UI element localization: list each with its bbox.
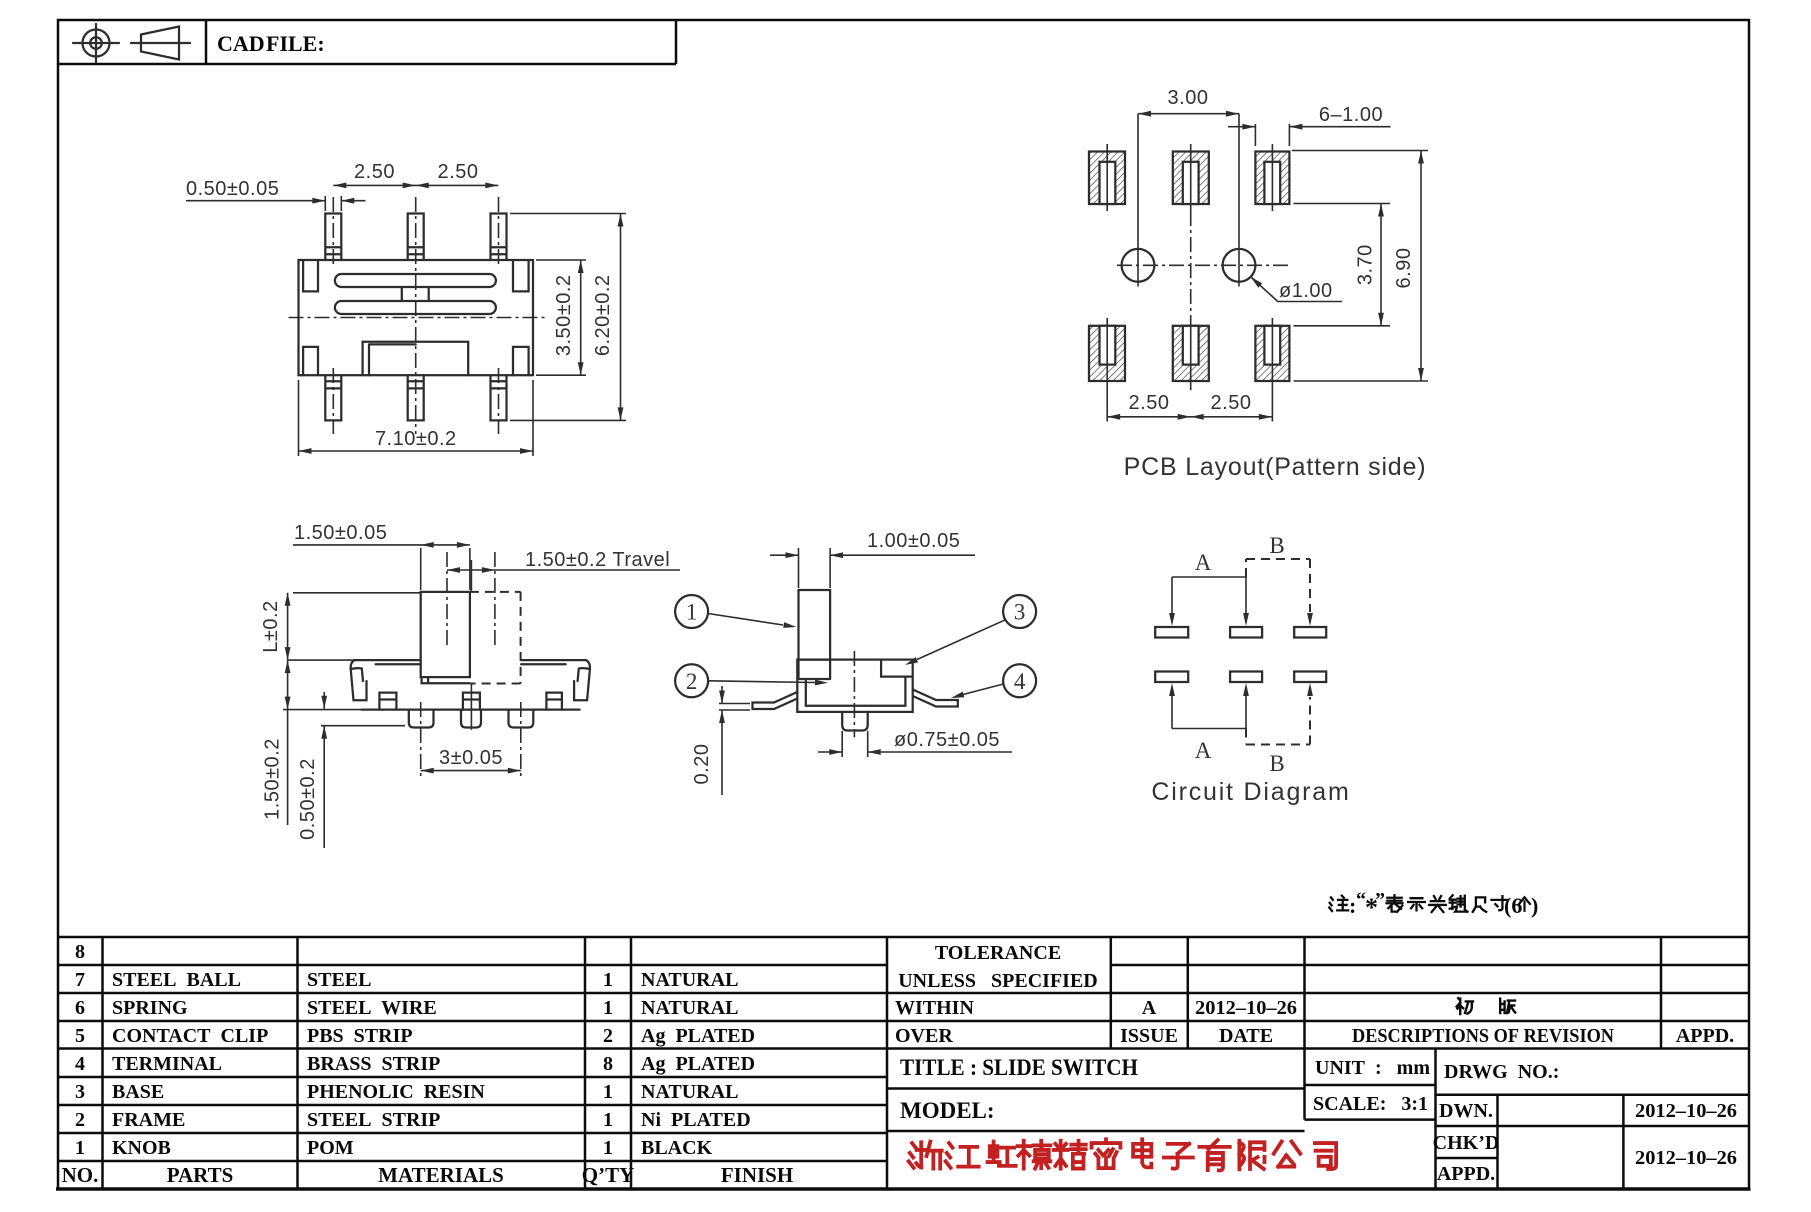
- dim 3.00 hole pitch: [1138, 87, 1239, 117]
- label hole diameter: [1249, 275, 1342, 302]
- section body outline: [797, 660, 912, 712]
- svg-text:STEEL: STEEL: [307, 969, 371, 991]
- note critical dimensions: [1329, 889, 1538, 922]
- svg-text:WITHIN: WITHIN: [895, 997, 974, 1019]
- body right corner tab: [574, 660, 590, 700]
- under tab right: [546, 693, 562, 710]
- svg-text:3.70: 3.70: [1355, 244, 1377, 285]
- svg-text:TOLERANCE: TOLERANCE: [935, 942, 1061, 964]
- terminal pin bottom-middle: [408, 375, 424, 420]
- dim 3.50 body height: [536, 260, 586, 375]
- svg-text:3: 3: [1014, 600, 1026, 625]
- svg-text:1: 1: [603, 997, 613, 1019]
- svg-text:Ag PLATED: Ag PLATED: [641, 1053, 755, 1075]
- contact pad 3 top-right: [1294, 627, 1326, 638]
- svg-text:4: 4: [1014, 669, 1026, 694]
- terminal pin top-left: [325, 214, 341, 261]
- svg-text:2: 2: [75, 1109, 85, 1131]
- svg-text:6.20±0.2: 6.20±0.2: [592, 274, 614, 356]
- contact pad 1 top-left: [1155, 627, 1188, 638]
- svg-text:1.50±0.2 Travel: 1.50±0.2 Travel: [525, 549, 670, 571]
- svg-text:Q’TY: Q’TY: [582, 1163, 635, 1187]
- svg-text:1: 1: [603, 969, 613, 991]
- dim 3 outer feet pitch: [421, 702, 521, 779]
- svg-text:2.50: 2.50: [1129, 392, 1170, 414]
- svg-text:CAD: CAD: [217, 31, 265, 56]
- svg-text:BRASS STRIP: BRASS STRIP: [307, 1053, 440, 1075]
- revision entry chinese: [1457, 998, 1516, 1014]
- knob stem: [799, 590, 831, 660]
- parts table grid: [58, 937, 1749, 1189]
- svg-text:2012–10–26: 2012–10–26: [1195, 997, 1297, 1019]
- svg-text:B: B: [1269, 533, 1284, 558]
- dim 6.90 overall: [1292, 151, 1428, 382]
- svg-text:3: 3: [75, 1081, 85, 1103]
- svg-text:8: 8: [603, 1053, 613, 1075]
- svg-text:A: A: [1195, 738, 1212, 763]
- hole circle right: [1223, 114, 1256, 287]
- wire B bottom dashed: [1246, 683, 1313, 776]
- svg-text:1: 1: [603, 1109, 613, 1131]
- vertical centerline middle: [415, 197, 417, 434]
- svg-text:2012–10–26: 2012–10–26: [1635, 1100, 1737, 1122]
- center line through middle foot: [470, 560, 472, 730]
- first-angle projection symbol cone: [131, 27, 190, 60]
- dim 0.50 standoff: [297, 692, 405, 848]
- hole circle left: [1122, 114, 1155, 287]
- svg-text:FILE:: FILE:: [266, 31, 325, 56]
- svg-text:B: B: [1269, 751, 1284, 776]
- svg-text:ISSUE: ISSUE: [1120, 1025, 1178, 1047]
- svg-text:6.90: 6.90: [1393, 248, 1415, 289]
- svg-text:3.00: 3.00: [1168, 87, 1209, 109]
- svg-text:1.50±0.2: 1.50±0.2: [262, 738, 284, 820]
- pad 6 bottom-right: [1255, 318, 1289, 422]
- smt foot middle: [461, 710, 481, 728]
- dim 2.50 pad pitch left: [1107, 392, 1272, 420]
- hole centerline horizontal: [1117, 264, 1292, 266]
- terminal pin bottom-right: [491, 375, 507, 420]
- knob travel centerline left: [446, 552, 448, 648]
- svg-text:PHENOLIC RESIN: PHENOLIC RESIN: [307, 1081, 485, 1103]
- frame corner notch bottom-left: [303, 347, 318, 375]
- svg-text:MODEL:: MODEL:: [900, 1098, 995, 1123]
- frame corner notch top-right: [513, 260, 529, 291]
- pad 2 top-middle: [1173, 144, 1209, 211]
- svg-text:DESCRIPTIONS OF REVISION: DESCRIPTIONS OF REVISION: [1352, 1025, 1615, 1047]
- dim 2.50 pitch right: [416, 161, 499, 188]
- svg-text:(6: (6: [1504, 893, 1522, 918]
- svg-text:KNOB: KNOB: [112, 1137, 171, 1159]
- svg-text:8: 8: [75, 941, 85, 963]
- svg-text:1.50±0.05: 1.50±0.05: [294, 522, 387, 544]
- dim 2.50 pad pitch right: [1191, 392, 1272, 420]
- svg-text:3±0.05: 3±0.05: [439, 747, 503, 769]
- svg-text:STEEL WIRE: STEEL WIRE: [307, 997, 437, 1019]
- svg-text:1: 1: [603, 1137, 613, 1159]
- svg-text:NATURAL: NATURAL: [641, 1081, 738, 1103]
- contact pad 2 top-middle: [1230, 627, 1262, 638]
- knob front: [421, 592, 470, 677]
- stem root line: [797, 660, 830, 679]
- first-angle projection symbol circle: [73, 24, 119, 62]
- svg-text:STEEL STRIP: STEEL STRIP: [307, 1109, 440, 1131]
- title block grid right: [887, 937, 1749, 1189]
- dim 0.20 lead thickness: [691, 686, 750, 795]
- contact pad 6 bottom-right: [1294, 672, 1326, 683]
- svg-text:0.20: 0.20: [691, 744, 713, 785]
- svg-text:Ag PLATED: Ag PLATED: [641, 1025, 755, 1047]
- smt foot right: [509, 710, 534, 728]
- svg-text:0.50±0.2: 0.50±0.2: [297, 758, 319, 840]
- balloon 4 terminal: [950, 664, 1036, 700]
- body top plate: [355, 660, 586, 664]
- wire A top: [1169, 550, 1249, 626]
- svg-text:1: 1: [603, 1081, 613, 1103]
- svg-text:FRAME: FRAME: [112, 1109, 185, 1131]
- dim 1.50 knob width: [293, 522, 470, 590]
- svg-text:PARTS: PARTS: [167, 1163, 234, 1187]
- svg-text:UNIT : mm: UNIT : mm: [1315, 1057, 1430, 1079]
- svg-text:SPRING: SPRING: [112, 997, 188, 1019]
- svg-text:NATURAL: NATURAL: [641, 997, 738, 1019]
- svg-text:1: 1: [686, 600, 698, 625]
- svg-text:Ni PLATED: Ni PLATED: [641, 1109, 751, 1131]
- svg-text:BLACK: BLACK: [641, 1137, 713, 1159]
- svg-text:): ): [1531, 893, 1538, 918]
- dim 1.50 body height: [262, 660, 362, 825]
- right bent lead: [913, 690, 958, 707]
- tolerance block text: [895, 942, 1734, 1047]
- base inner cavity: [806, 677, 906, 706]
- pad 3 top-right: [1255, 144, 1289, 211]
- svg-text:A: A: [1142, 997, 1157, 1019]
- svg-text:ø0.75±0.05: ø0.75±0.05: [894, 729, 1000, 751]
- svg-text:PBS STRIP: PBS STRIP: [307, 1025, 413, 1047]
- contact pad 5 bottom-middle: [1230, 672, 1262, 683]
- switch body outline: [299, 260, 534, 375]
- svg-text:3.50±0.2: 3.50±0.2: [553, 274, 575, 356]
- body bottom line: [362, 708, 580, 710]
- svg-text:DRWG NO.:: DRWG NO.:: [1444, 1061, 1559, 1083]
- svg-text:NO.: NO.: [62, 1163, 99, 1187]
- knob collar step: [422, 677, 470, 683]
- svg-text:FINISH: FINISH: [721, 1163, 793, 1187]
- horizontal centerline: [289, 317, 547, 319]
- terminal pin top-middle: [408, 214, 424, 261]
- parts rows text: [75, 941, 613, 1159]
- title model text: [900, 1055, 1737, 1185]
- svg-text:SCALE: 3:1: SCALE: 3:1: [1313, 1093, 1428, 1115]
- frame step top-right: [881, 660, 913, 677]
- knob tab between slots: [402, 287, 429, 301]
- terminal pin top-right: [491, 214, 507, 261]
- wire A bottom: [1169, 683, 1249, 763]
- svg-text:5: 5: [75, 1025, 85, 1047]
- svg-text:ø1.00: ø1.00: [1279, 280, 1333, 302]
- svg-text:OVER: OVER: [895, 1025, 953, 1047]
- under tab left: [379, 693, 396, 710]
- dim 0.50 pin width: [186, 178, 366, 211]
- svg-text:A: A: [1195, 550, 1212, 575]
- svg-text:NATURAL: NATURAL: [641, 969, 738, 991]
- knob body seen through (lower rectangle): [363, 342, 469, 376]
- svg-text:APPD.: APPD.: [1437, 1163, 1495, 1185]
- svg-text:PCB Layout(Pattern side): PCB Layout(Pattern side): [1124, 453, 1427, 481]
- svg-text:1.00±0.05: 1.00±0.05: [867, 530, 960, 552]
- svg-text:2.50: 2.50: [354, 161, 395, 183]
- svg-text:2012–10–26: 2012–10–26: [1635, 1147, 1737, 1169]
- dim 1.00 stem width: [770, 530, 975, 588]
- svg-text:6–1.00: 6–1.00: [1319, 104, 1383, 126]
- svg-text:UNLESS SPECIFIED: UNLESS SPECIFIED: [898, 970, 1098, 992]
- svg-text:”: ”: [1375, 889, 1385, 911]
- slide slot upper: [335, 274, 496, 287]
- pad 4 bottom-left: [1089, 318, 1125, 422]
- section centerline: [853, 651, 855, 737]
- svg-text:STEEL BALL: STEEL BALL: [112, 969, 241, 991]
- balloon 1 knob: [675, 595, 797, 630]
- slide slot lower: [335, 301, 496, 314]
- body left corner tab: [351, 660, 367, 700]
- svg-text:6: 6: [75, 997, 85, 1019]
- svg-text:1: 1: [75, 1137, 85, 1159]
- dim L knob height: [260, 593, 421, 660]
- dim 2.50 pitch left: [333, 161, 498, 188]
- company name red: [909, 1139, 1336, 1170]
- balloon 3 frame: [904, 595, 1036, 668]
- dim 3.70 row gap: [1294, 204, 1391, 326]
- knob travel position dashed: [470, 592, 521, 684]
- svg-text:L±0.2: L±0.2: [260, 600, 282, 652]
- svg-text:MATERIALS: MATERIALS: [378, 1163, 504, 1187]
- dim 7.10 overall width: [299, 380, 534, 456]
- wire B top dashed: [1246, 533, 1313, 626]
- under tab middle: [463, 693, 480, 710]
- centerline pin left: [332, 197, 334, 434]
- svg-text:2: 2: [686, 669, 698, 694]
- frame corner notch top-left: [303, 260, 318, 291]
- centerline pin right: [498, 197, 500, 434]
- svg-text:CONTACT CLIP: CONTACT CLIP: [112, 1025, 268, 1047]
- frame corner notch bottom-right: [513, 347, 529, 375]
- svg-text:4: 4: [75, 1053, 85, 1075]
- svg-text:7: 7: [75, 969, 85, 991]
- knob travel centerline right: [494, 552, 496, 648]
- svg-text:DWN.: DWN.: [1439, 1100, 1493, 1122]
- pad 5 bottom-middle: [1173, 318, 1209, 390]
- svg-text:BASE: BASE: [112, 1081, 164, 1103]
- svg-text:CHK’D: CHK’D: [1433, 1132, 1500, 1154]
- table header labels: [62, 1163, 794, 1187]
- svg-text:2.50: 2.50: [1211, 392, 1252, 414]
- table bottom border: [56, 1187, 1751, 1190]
- svg-text:TERMINAL: TERMINAL: [112, 1053, 222, 1075]
- terminal pin bottom-left: [325, 375, 341, 420]
- svg-text:POM: POM: [307, 1137, 354, 1159]
- center post terminal: [842, 712, 868, 731]
- left bent lead: [753, 692, 798, 709]
- dim 1.50 travel: [447, 549, 680, 573]
- svg-text:APPD.: APPD.: [1676, 1025, 1734, 1047]
- dim 0.75 post diameter: [818, 729, 1012, 757]
- svg-text:7.10±0.2: 7.10±0.2: [375, 428, 457, 450]
- svg-text:2: 2: [603, 1025, 613, 1047]
- svg-text:TITLE : SLIDE SWITCH: TITLE : SLIDE SWITCH: [900, 1055, 1138, 1080]
- header box divider: [58, 20, 676, 64]
- dim 6.20 overall height: [510, 214, 626, 421]
- svg-text:2.50: 2.50: [438, 161, 479, 183]
- svg-text:0.50±0.05: 0.50±0.05: [186, 178, 279, 200]
- pad 1 top-left: [1089, 144, 1125, 211]
- dim 6-1.00 pad width: [1228, 104, 1391, 146]
- centerline pad column middle: [1190, 211, 1192, 318]
- balloon 2 contact clip: [675, 664, 828, 697]
- contact pad 4 bottom-left: [1155, 672, 1188, 683]
- svg-text:Circuit Diagram: Circuit Diagram: [1151, 778, 1350, 806]
- smt foot left: [409, 710, 434, 728]
- svg-text:DATE: DATE: [1219, 1025, 1273, 1047]
